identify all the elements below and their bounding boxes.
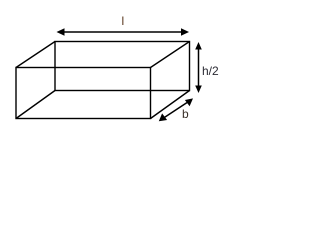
svg-text:b: b — [182, 107, 189, 121]
svg-text:h/2: h/2 — [202, 64, 219, 78]
depth edge top-right — [151, 42, 190, 68]
svg-text:l: l — [122, 14, 125, 28]
dimension arrow l (horizontal double-headed) — [57, 28, 190, 36]
depth edge bottom-left — [16, 91, 55, 119]
dimension arrow h/2 (vertical double-headed) — [195, 42, 202, 93]
cuboid back face — [55, 42, 190, 91]
depth edge bottom-right — [151, 91, 190, 119]
dimension arrow b (diagonal double-headed) — [159, 98, 193, 121]
cuboid front face — [16, 68, 151, 119]
depth edge top-left — [16, 42, 55, 68]
